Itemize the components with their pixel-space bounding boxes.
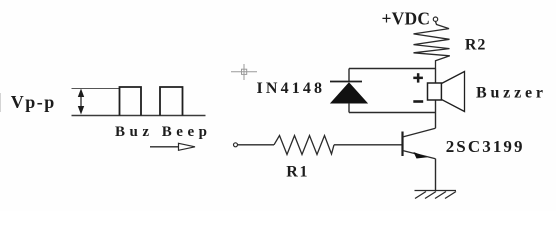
ground: [415, 191, 457, 199]
svg-text:R: R: [286, 164, 298, 181]
svg-text:Buz Beep: Buz Beep: [115, 124, 207, 140]
svg-text:Vp-p: Vp-p: [11, 92, 55, 112]
waveform top reference line: [72, 88, 120, 90]
waveform pulses: [120, 87, 183, 116]
wire: input terminal to R1: [238, 144, 274, 146]
input terminal: [234, 143, 238, 147]
resistor R2: [414, 22, 450, 69]
wire: top rail from diode to collector line: [349, 68, 436, 70]
svg-text:+VDC: +VDC: [382, 9, 431, 29]
buzzer BZ1: [413, 72, 464, 112]
transistor Q1 2SC3199 (NPN): [403, 128, 436, 159]
wire: collector rail (vertical): [435, 69, 437, 129]
svg-text:2SC3199: 2SC3199: [446, 137, 523, 156]
left edge scan artifact: [0, 93, 2, 112]
waveform baseline: [72, 115, 206, 117]
diode D1 (flyback, cathode up): [330, 69, 367, 113]
svg-text:1: 1: [300, 164, 308, 181]
wire: R1 to transistor base: [334, 144, 402, 146]
svg-text:R: R: [465, 36, 477, 53]
wire: bottom of diode loop to collector line: [349, 112, 436, 114]
Buz Beep direction arrow: [150, 143, 195, 150]
svg-text:2: 2: [477, 36, 485, 53]
cursor crosshair: [231, 64, 257, 80]
wire: emitter to ground: [435, 159, 437, 191]
resistor R1: [274, 136, 334, 155]
Vp-p measurement arrow: [78, 89, 84, 115]
+VDC terminal: [433, 17, 437, 21]
